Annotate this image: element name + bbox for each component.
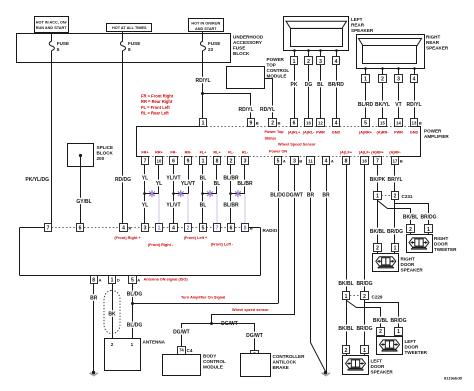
svg-text:1: 1 (202, 121, 205, 127)
svg-text:6: 6 (230, 226, 233, 232)
svg-text:Power Top: Power Top (265, 130, 285, 134)
svg-text:PWR: PWR (394, 131, 403, 135)
svg-text:13: 13 (412, 120, 417, 125)
svg-text:1: 1 (158, 226, 161, 232)
ground G301 (324, 371, 328, 375)
wire BR amp pin11 to ground (311, 165, 326, 372)
wire BR/YL amp pin17 to C231 (394, 165, 396, 192)
wire PK/YL/DG fuse5 to radio pin7 (51, 63, 53, 224)
svg-text:Power ON: Power ON (269, 150, 287, 154)
amplifier bottom pin 7 (374, 157, 382, 165)
amplifier bottom pin 2 (228, 157, 235, 165)
right door tweeter pin 2 (407, 225, 415, 233)
svg-text:(A)RL+: (A)RL+ (288, 131, 301, 135)
wire YL pair right upper (158, 165, 160, 194)
svg-text:(A)LF+: (A)LF+ (340, 151, 353, 155)
right rear speaker pin 2 (381, 67, 384, 70)
svg-text:DOOR: DOOR (405, 345, 419, 350)
svg-text:FL+: FL+ (200, 151, 208, 155)
amplifier top pin 13 (411, 119, 418, 127)
amplifier top pin 5 (362, 119, 370, 127)
svg-text:BL/RD: BL/RD (358, 102, 374, 108)
amplifier top pin 2 (269, 119, 277, 127)
svg-text:1: 1 (397, 329, 400, 335)
amplifier top pin 12 (317, 119, 325, 127)
inline connector BK grommet (104, 291, 120, 334)
amplifier top pin 14 (395, 119, 403, 127)
right door speaker RD1 (377, 252, 379, 254)
svg-text:BK: BK (108, 312, 116, 318)
connector C229 pin 2 (361, 292, 369, 300)
left door speaker LD1 (346, 354, 348, 356)
svg-text:200: 200 (97, 156, 105, 161)
svg-text:9: 9 (187, 159, 190, 165)
radio top pin 5 (200, 224, 207, 232)
svg-text:RR+: RR+ (155, 151, 163, 155)
svg-text:(A)RL-: (A)RL- (303, 131, 315, 135)
svg-text:2: 2 (271, 121, 274, 127)
amplifier bottom pin 3 (291, 157, 299, 165)
right rear speaker pin 4 (413, 67, 416, 70)
right door tweeter RT1 (410, 233, 412, 235)
radio top pin 8 (242, 224, 249, 232)
svg-text:3: 3 (244, 159, 247, 165)
svg-text:DG/WT: DG/WT (286, 192, 303, 198)
svg-text:2: 2 (111, 342, 114, 347)
twisted pair crossover (143, 192, 146, 195)
svg-text:FL = Front Left: FL = Front Left (141, 105, 170, 110)
wire YL/VT pair right upper (188, 165, 190, 194)
wire YL/VT pair right lower (187, 194, 189, 224)
svg-text:6: 6 (79, 226, 82, 232)
svg-text:RADIO: RADIO (263, 228, 278, 233)
svg-text:LEFT: LEFT (371, 359, 383, 364)
amplifier top pin 6 (291, 119, 298, 127)
svg-text:RR = Rear Right: RR = Rear Right (141, 99, 173, 104)
wire BL/DG amp pin5A power on (278, 165, 280, 304)
svg-text:1: 1 (345, 294, 348, 300)
svg-text:A: A (283, 159, 286, 164)
svg-text:(A)RR+: (A)RR+ (359, 131, 373, 135)
svg-text:D: D (117, 277, 120, 282)
amplifier bottom pin 11 (307, 157, 315, 165)
svg-text:(A)RF-: (A)RF- (389, 151, 401, 155)
left rear speaker pin 3 (319, 49, 322, 52)
wire BK/BL branch to left door tweeter pin2 (347, 301, 381, 328)
left door speaker pin 1 (361, 346, 369, 354)
svg-text:VT: VT (395, 102, 401, 108)
amplifier top pin 9 (248, 119, 255, 127)
svg-text:TWEETER: TWEETER (434, 247, 457, 252)
controller antilock brake U4 (241, 354, 271, 377)
svg-text:BK/BL: BK/BL (370, 229, 385, 235)
wire BL/DG radio pin5 antenna signal (132, 283, 134, 339)
wire DG/WT amp pin3B wheel speed sensor (212, 165, 295, 324)
svg-text:RIGHT: RIGHT (426, 35, 440, 40)
radio top pin 4 (170, 224, 178, 232)
svg-text:4: 4 (335, 59, 338, 65)
wire YL pair left (144, 165, 146, 224)
svg-text:8: 8 (244, 226, 247, 232)
wire (202, 31, 204, 33)
wire BR/RD left rear speaker to amplifier (336, 65, 338, 119)
body control module U3 (163, 355, 201, 376)
svg-text:10: 10 (157, 158, 162, 163)
svg-text:BR: BR (322, 192, 330, 198)
wire RD/YL power top module to amp pin2 (265, 79, 273, 119)
wire BK/BL amp pin8 to C229 (346, 165, 348, 292)
radio top pin 6 (228, 224, 235, 232)
fuse F8 (122, 34, 124, 41)
svg-text:B: B (419, 121, 422, 126)
svg-text:16: 16 (362, 158, 367, 163)
svg-text:DG: DG (305, 82, 313, 88)
svg-text:RD/YL: RD/YL (239, 107, 254, 113)
amplifier top pin 15 (379, 119, 387, 127)
svg-text:1: 1 (376, 194, 379, 200)
svg-text:6: 6 (172, 159, 175, 165)
svg-text:(Front) Left -: (Front) Left - (211, 242, 234, 246)
svg-text:1: 1 (427, 227, 430, 233)
svg-text:GND: GND (410, 131, 419, 135)
svg-text:1: 1 (394, 245, 397, 251)
svg-text:HOT AT ALL TIMES: HOT AT ALL TIMES (112, 26, 147, 30)
amplifier bottom pin 7 (142, 157, 149, 165)
svg-text:GY/BL: GY/BL (76, 199, 91, 205)
svg-text:CONTROL: CONTROL (203, 359, 226, 364)
radio top pin 2 (185, 224, 192, 232)
svg-text:BL/DG: BL/DG (127, 323, 143, 329)
connector C231 pin 1 (374, 192, 382, 200)
radio top pin 4 (120, 224, 128, 232)
svg-text:16: 16 (306, 120, 311, 125)
svg-text:BL: BL (317, 82, 324, 88)
wire BK/BL C229 to left door speaker pin2 (346, 300, 348, 346)
svg-text:C231: C231 (402, 194, 413, 199)
radio top pin 7 (45, 224, 52, 232)
svg-text:2: 2 (394, 194, 397, 200)
svg-text:12: 12 (318, 120, 323, 125)
svg-text:FL-: FL- (228, 151, 235, 155)
svg-text:YL: YL (142, 175, 148, 181)
wire BR/DG amp pin16 to C229 (364, 165, 366, 292)
svg-text:8119abd9: 8119abd9 (444, 376, 463, 381)
power top control module U-PTCM (227, 67, 265, 89)
svg-text:A: A (137, 277, 140, 282)
antenna (105, 339, 141, 371)
svg-text:3: 3 (397, 77, 400, 83)
svg-text:POWER: POWER (267, 57, 285, 62)
wire RD/YL fuse23 to amp pin1 (202, 63, 204, 119)
node turn-on branch (131, 302, 134, 305)
svg-text:CONTROL: CONTROL (267, 68, 290, 73)
wire DG/WT to antilock brake controller (212, 324, 255, 351)
svg-text:BL/DG: BL/DG (127, 291, 143, 297)
svg-text:MODULE: MODULE (267, 74, 287, 79)
wire RD/YL right rear speaker to amplifier (414, 83, 416, 119)
wire BK/PK amp pin7 to C231 (377, 165, 379, 192)
svg-text:AND START: AND START (195, 27, 217, 31)
splice block 200 (68, 144, 94, 167)
power feed box HOT IN ON/RUN (189, 19, 224, 32)
amplifier bottom pin 3 (242, 157, 249, 165)
svg-text:RD/YL: RD/YL (260, 107, 275, 113)
svg-text:5: 5 (202, 226, 205, 232)
svg-text:1: 1 (293, 59, 296, 65)
right door speaker pin 1 (392, 244, 399, 252)
svg-text:4: 4 (325, 159, 328, 165)
svg-text:BRAKE: BRAKE (273, 365, 289, 370)
svg-text:5: 5 (131, 277, 134, 283)
radio top pin 7 (214, 224, 221, 232)
svg-text:FUSE: FUSE (128, 41, 140, 46)
radio top pin 3 (142, 224, 149, 232)
svg-text:1: 1 (131, 342, 134, 347)
svg-text:BL: BL (214, 181, 221, 187)
svg-text:DG/WT: DG/WT (173, 329, 190, 335)
svg-text:HOT IN ON/RUN: HOT IN ON/RUN (191, 21, 220, 25)
svg-text:(A)LF-: (A)LF- (359, 151, 371, 155)
svg-text:DOOR: DOOR (371, 364, 385, 369)
svg-text:B: B (299, 159, 302, 164)
connector C231 pin 2 (392, 192, 399, 200)
amplifier bottom pin 4 (323, 157, 330, 165)
svg-text:DOOR: DOOR (401, 262, 415, 267)
svg-text:7: 7 (144, 159, 147, 165)
wire GY/BL splice to radio pin6 (80, 155, 82, 224)
svg-text:BR/DG: BR/DG (390, 318, 406, 324)
amplifier bottom pin 1 (200, 157, 207, 165)
svg-text:RUN AND START: RUN AND START (36, 26, 67, 30)
amplifier pin function labels (141, 130, 418, 155)
svg-text:FR-: FR- (170, 151, 177, 155)
left door tweeter pin 1 (395, 328, 403, 336)
svg-text:RD/YL: RD/YL (407, 102, 422, 108)
wire BK/BL C231 to right door speaker pin2 (377, 200, 379, 244)
amplifier bottom pin 8 (343, 157, 350, 165)
svg-text:3: 3 (293, 159, 296, 165)
svg-text:2: 2 (409, 227, 412, 233)
svg-text:8: 8 (128, 47, 131, 52)
amplifier bottom pin 16 (361, 157, 369, 165)
wire VT right rear speaker to amplifier (398, 83, 400, 119)
svg-text:ANTENNA: ANTENNA (143, 340, 166, 345)
svg-text:ACCESSORY: ACCESSORY (233, 40, 262, 45)
ground G200 (92, 371, 96, 375)
left rear speaker pin 2 (307, 49, 310, 52)
svg-text:LEFT: LEFT (351, 17, 363, 22)
svg-text:TWEETER: TWEETER (405, 350, 428, 355)
radio top pin 6 (77, 224, 84, 232)
svg-text:Status: Status (265, 137, 277, 141)
wire RD/YL branch to amp pin9 (203, 94, 251, 119)
svg-text:MODULE: MODULE (203, 365, 223, 370)
svg-text:FR+: FR+ (141, 151, 149, 155)
svg-text:AMPLIFIER: AMPLIFIER (424, 134, 449, 139)
svg-text:BR: BR (307, 192, 315, 198)
svg-text:(Front) Right -: (Front) Right - (148, 243, 174, 247)
svg-text:RD/DG: RD/DG (115, 177, 131, 183)
svg-text:A: A (99, 277, 102, 282)
wire (51, 32, 53, 35)
wire BL/BR pair right lower (244, 194, 246, 224)
svg-text:2: 2 (307, 59, 310, 65)
antilock brake controller pin 5 (251, 351, 259, 359)
svg-text:2: 2 (381, 77, 384, 83)
wire BL pair left (202, 165, 204, 224)
svg-text:FUSE: FUSE (57, 41, 69, 46)
svg-text:PK: PK (291, 82, 298, 88)
amplifier top pin 1 (200, 119, 207, 127)
svg-text:RIGHT: RIGHT (434, 236, 448, 241)
svg-text:BK/BL: BK/BL (373, 318, 388, 324)
radio channel labels (114, 236, 234, 247)
svg-text:UNDERHOOD: UNDERHOOD (233, 35, 264, 40)
svg-text:RIGHT: RIGHT (401, 257, 415, 262)
node on RD/YL wire (201, 92, 204, 95)
amplifier bottom pin 10 (156, 157, 163, 165)
svg-text:23: 23 (208, 47, 214, 52)
svg-text:9: 9 (250, 121, 253, 127)
svg-text:BK/YL: BK/YL (375, 102, 390, 108)
svg-text:5: 5 (277, 159, 280, 165)
svg-text:(Front) Left +: (Front) Left + (184, 236, 208, 240)
svg-text:YL: YL (156, 181, 162, 187)
svg-text:14: 14 (396, 120, 401, 125)
svg-text:FR = Front Right: FR = Front Right (141, 94, 174, 99)
power amplifier U1 (136, 127, 138, 157)
svg-text:3: 3 (144, 226, 147, 232)
left door speaker pin 2 (343, 346, 350, 354)
svg-text:11: 11 (308, 158, 313, 163)
radio bottom pin 1 (109, 276, 116, 284)
svg-text:SPLICE: SPLICE (97, 145, 114, 150)
svg-text:15: 15 (380, 120, 385, 125)
power feed box HOT AT ALL TIMES (107, 24, 152, 32)
wire BL pair right lower (216, 194, 218, 224)
svg-text:2: 2 (379, 329, 382, 335)
svg-text:7: 7 (47, 226, 50, 232)
svg-text:1: 1 (363, 348, 366, 354)
svg-text:RL-: RL- (242, 151, 249, 155)
wire BR/DG branch to left door tweeter pin1 (365, 303, 399, 328)
svg-text:SPEAKER: SPEAKER (351, 28, 374, 33)
svg-text:BK/PK: BK/PK (370, 177, 386, 183)
svg-text:FUSE: FUSE (208, 41, 220, 46)
svg-text:DG/WT: DG/WT (221, 321, 238, 327)
svg-text:1: 1 (111, 277, 114, 283)
svg-text:PK/YL/DG: PK/YL/DG (25, 177, 49, 183)
svg-text:5: 5 (364, 121, 367, 127)
svg-text:1: 1 (364, 77, 367, 83)
wire BR/DG C231 to right door speaker pin1 (394, 200, 396, 244)
wire BR/DG branch to right door tweeter pin1 (395, 204, 429, 225)
svg-text:C229: C229 (372, 294, 383, 299)
svg-text:Wheel Speed Sensor: Wheel Speed Sensor (278, 143, 316, 147)
wire PK left rear speaker to amplifier (294, 65, 296, 119)
amplifier bottom pin 6 (170, 157, 178, 165)
svg-text:SPEAKER: SPEAKER (401, 268, 424, 273)
radio top pin 1 (156, 224, 163, 232)
svg-text:DOOR: DOOR (434, 242, 448, 247)
radio bottom pin 8 (91, 276, 98, 284)
svg-text:B: B (278, 121, 281, 126)
svg-text:ANTILOCK: ANTILOCK (273, 360, 297, 365)
svg-text:BK/BL: BK/BL (338, 281, 353, 287)
svg-text:B: B (256, 121, 259, 126)
svg-text:YL/VT: YL/VT (166, 175, 180, 181)
svg-text:LEFT: LEFT (405, 339, 417, 344)
svg-text:RL = Rear Left: RL = Rear Left (141, 111, 169, 116)
svg-text:74: 74 (179, 348, 184, 353)
amplifier top pin 16 (305, 119, 313, 127)
svg-text:2: 2 (376, 245, 379, 251)
svg-text:YL/VT: YL/VT (181, 181, 195, 187)
svg-text:SPEAKER: SPEAKER (426, 46, 449, 51)
svg-text:2: 2 (230, 159, 233, 165)
left door tweeter pin 2 (377, 328, 385, 336)
svg-text:BR/YL: BR/YL (388, 177, 403, 183)
fuse F5 (51, 34, 53, 41)
power feed box HOT IN ACC (35, 17, 69, 33)
left rear speaker LS1 (284, 17, 349, 51)
svg-text:8: 8 (216, 159, 219, 165)
body control module pin 74 (178, 347, 186, 355)
svg-text:1: 1 (202, 159, 205, 165)
amplifier bottom pin 5 (275, 157, 282, 165)
wire radio pin1D to antenna (112, 283, 114, 339)
svg-text:RL+: RL+ (213, 151, 221, 155)
wire DG/WT to body control module (182, 324, 212, 347)
wire BL/RD right rear speaker to amplifier (365, 83, 367, 119)
svg-text:Wheel speed sensor: Wheel speed sensor (232, 308, 269, 312)
svg-text:BK/BL: BK/BL (338, 326, 353, 332)
svg-text:REAR: REAR (426, 40, 440, 45)
svg-text:4: 4 (172, 226, 175, 232)
wire YL pair right lower (158, 194, 160, 224)
svg-text:BL/BR: BL/BR (237, 181, 253, 187)
svg-text:BR/DG: BR/DG (356, 326, 372, 332)
wire BL/BR pair right upper (244, 165, 246, 194)
left rear speaker pin 4 (335, 49, 338, 52)
svg-text:4: 4 (413, 77, 416, 83)
svg-text:BL: BL (200, 203, 207, 209)
svg-text:8: 8 (345, 159, 348, 165)
svg-text:Antenna ON signal (ISO): Antenna ON signal (ISO) (144, 278, 189, 282)
svg-text:BR/RD: BR/RD (328, 82, 344, 88)
svg-text:Turn Amplifier On Signal: Turn Amplifier On Signal (181, 296, 225, 300)
svg-text:(A)RF+: (A)RF+ (371, 151, 384, 155)
svg-text:RR-: RR- (185, 151, 192, 155)
svg-text:BLOCK: BLOCK (233, 51, 250, 56)
wire BL left rear speaker to amplifier (320, 65, 322, 119)
svg-text:HOT IN ACC, ON/: HOT IN ACC, ON/ (36, 20, 68, 24)
amplifier bottom pin 9 (185, 157, 192, 165)
node wheel speed sensor split (210, 322, 213, 325)
svg-text:REAR: REAR (351, 23, 365, 28)
svg-text:BL: BL (200, 175, 207, 181)
left door tweeter LT1 (380, 335, 382, 336)
svg-text:6: 6 (293, 121, 296, 127)
svg-text:A: A (128, 226, 131, 231)
wire BK/BL branch to right door tweeter pin2 (378, 201, 411, 225)
underhood accessory fuse block (17, 34, 231, 63)
svg-text:8: 8 (92, 277, 95, 283)
right rear speaker pin 3 (397, 67, 400, 70)
svg-text:2: 2 (187, 226, 190, 232)
svg-text:YL: YL (142, 203, 148, 209)
svg-text:CONTROLLER: CONTROLLER (273, 354, 306, 359)
